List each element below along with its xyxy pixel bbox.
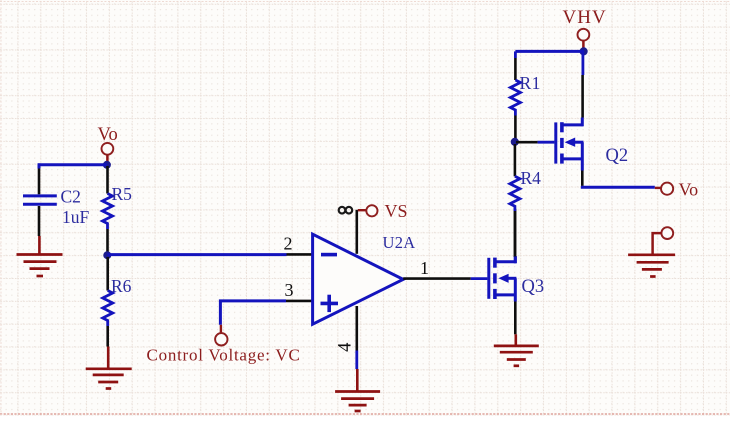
svg-text:Q3: Q3 [522,277,545,297]
svg-text:4: 4 [336,343,356,352]
svg-text:Q2: Q2 [606,146,629,166]
svg-text:3: 3 [285,280,294,300]
svg-text:R4: R4 [521,168,542,188]
svg-text:R6: R6 [111,276,132,296]
svg-text:R5: R5 [112,184,133,204]
svg-text:1uF: 1uF [62,207,90,227]
svg-text:Vo: Vo [679,180,699,200]
svg-text:VHV: VHV [563,7,607,28]
svg-text:Vo: Vo [98,125,118,145]
svg-text:2: 2 [284,233,293,253]
svg-text:U2A: U2A [383,233,416,252]
svg-text:C2: C2 [61,187,81,207]
svg-text:R1: R1 [520,73,541,93]
svg-text:1: 1 [420,258,429,278]
svg-text:Control Voltage: VC: Control Voltage: VC [147,346,301,365]
svg-text:VS: VS [385,201,408,221]
